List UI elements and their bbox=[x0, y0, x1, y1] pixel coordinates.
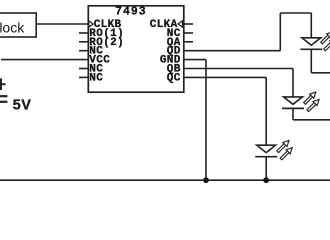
pin stub NC left pin7 bbox=[79, 76, 88, 78]
wire LED2 anode drop bbox=[292, 69, 294, 97]
battery V1 plate top bbox=[0, 95, 7, 97]
wire LED3 cathode down bbox=[265, 157, 267, 181]
svg-text:QC: QC bbox=[167, 72, 181, 84]
wire LED1 anode drop bbox=[310, 13, 312, 38]
wire QD riser up bbox=[279, 13, 281, 51]
wire LED1 cathode down bbox=[310, 49, 312, 73]
pin stub NC right pin2 bbox=[184, 32, 193, 34]
wire LED1 cathode exit right bbox=[311, 72, 330, 74]
svg-text:5V: 5V bbox=[13, 97, 32, 113]
LED1 (QD output) bbox=[300, 32, 330, 51]
wire QD top run to LED1 bbox=[280, 12, 311, 14]
wire QD horizontal bbox=[184, 50, 280, 52]
clock source box bbox=[0, 13, 36, 37]
pin stub QA bbox=[184, 41, 193, 43]
clock input arrow CLKB bbox=[89, 21, 93, 27]
wire GND drop to bus bbox=[205, 60, 207, 181]
LED2 (QB output) bbox=[282, 92, 319, 111]
wire clock to CLKB pin bbox=[36, 23, 88, 25]
junction dot LED3 bus bbox=[263, 177, 269, 183]
pin stub NC left pin4 bbox=[79, 50, 88, 52]
pin stub RO(2) bbox=[79, 41, 88, 43]
clock input arrow CLKA bbox=[178, 21, 182, 27]
LED3 (QC output) bbox=[255, 140, 292, 159]
IC U1 7493 body bbox=[88, 6, 184, 92]
wire LED2 cathode exit right bbox=[293, 119, 330, 121]
pin stub NC left pin6 bbox=[79, 68, 88, 70]
wire VCC to battery bbox=[1, 59, 88, 61]
battery V1 plate bottom bbox=[0, 101, 7, 103]
svg-text:7493: 7493 bbox=[115, 5, 147, 18]
wire LED3 anode drop bbox=[265, 77, 267, 145]
wire GND horizontal bbox=[184, 59, 206, 61]
svg-text:Clock: Clock bbox=[0, 19, 25, 35]
pin stub CLKA bbox=[184, 23, 193, 25]
wire QB horizontal bbox=[184, 68, 293, 70]
wire QC horizontal bbox=[184, 76, 266, 78]
ground bus wire bbox=[0, 179, 330, 181]
junction dot GND bus bbox=[203, 177, 209, 183]
pin stub RO(1) bbox=[79, 32, 88, 34]
svg-text:NC: NC bbox=[89, 72, 103, 84]
battery V1 plus sign bbox=[0, 78, 6, 90]
wire LED2 cathode down bbox=[292, 108, 294, 119]
